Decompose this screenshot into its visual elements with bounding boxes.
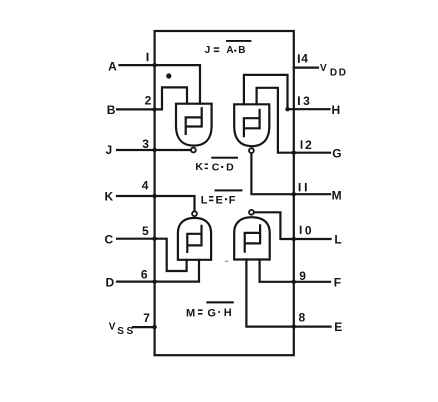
U1d output bubble — [249, 210, 254, 215]
svg-text:A: A — [108, 60, 117, 74]
svg-text:2: 2 — [305, 138, 312, 152]
svg-text:0: 0 — [305, 224, 312, 238]
wire pin 3 (gate U1a output J) — [117, 149, 190, 151]
svg-text:3: 3 — [142, 137, 149, 151]
svg-text:9: 9 — [299, 269, 306, 283]
pin number 10 — [300, 226, 302, 234]
junction pin11/edge — [292, 192, 296, 196]
junction pin2/edge — [152, 107, 156, 111]
svg-text:K: K — [195, 161, 203, 173]
NAND gate U1c body (points up) — [178, 218, 211, 260]
pin number 11 — [299, 183, 301, 191]
wire pin 5 (input C to gate U1c) — [117, 239, 187, 271]
svg-text:E: E — [216, 195, 223, 207]
wire pin 6 (input D to gate U1c) — [117, 260, 199, 282]
junction pin7/edge — [152, 325, 156, 329]
U1b output bubble — [249, 148, 254, 153]
svg-text:F: F — [229, 194, 236, 206]
IC package outline — [155, 31, 294, 355]
svg-text:D: D — [106, 276, 115, 290]
junction pin9/edge — [292, 280, 296, 284]
U1c hysteresis symbol — [187, 226, 201, 252]
svg-text:A: A — [226, 45, 233, 56]
pin number 14 — [298, 54, 300, 63]
svg-text:8: 8 — [299, 310, 306, 324]
svg-text:B: B — [238, 45, 245, 56]
svg-text:B: B — [107, 103, 116, 117]
svg-text:L: L — [201, 194, 208, 206]
equation K = C·D — [195, 161, 234, 173]
NAND gate U1b body (points down) — [234, 104, 269, 146]
wire pin 9 (input F to gate U1d) — [260, 260, 330, 282]
svg-text:D: D — [226, 161, 234, 173]
svg-text:DD: DD — [330, 67, 348, 78]
overline for G·H — [206, 301, 234, 303]
U1a output bubble — [191, 148, 196, 153]
svg-text:M: M — [186, 308, 195, 320]
junction pin8/edge — [292, 324, 296, 328]
wire pin 12 (input G to gate U1b) — [257, 88, 330, 153]
stray scan mark — [225, 260, 229, 262]
wire pin 2 (input B to gate U1a) — [117, 87, 187, 109]
svg-text:4: 4 — [142, 179, 149, 193]
pin number 1 — [147, 53, 149, 61]
svg-text:SS: SS — [117, 326, 135, 337]
U1d hysteresis symbol — [245, 225, 260, 251]
NAND gate U1a body (points down) — [176, 104, 212, 146]
wire pin 1 (input A to gate U1a) — [120, 65, 201, 104]
svg-text:E: E — [334, 320, 342, 334]
svg-text:K: K — [105, 189, 114, 203]
junction pin10/edge — [292, 237, 296, 241]
svg-text:5: 5 — [142, 224, 149, 238]
svg-text:F: F — [334, 276, 341, 290]
wire pin 11 (gate U1b output M) — [251, 154, 330, 195]
svg-text:M: M — [332, 189, 342, 203]
junction pin13 riser — [285, 107, 289, 111]
junction pin5/edge — [152, 237, 156, 241]
svg-text:L: L — [334, 233, 341, 247]
pin number 13 — [298, 96, 300, 105]
svg-text:V: V — [320, 63, 327, 74]
svg-text:6: 6 — [141, 268, 148, 282]
svg-text:2: 2 — [145, 93, 152, 107]
overline for A·B — [226, 40, 251, 42]
svg-text:V: V — [109, 321, 116, 332]
svg-text:G: G — [207, 308, 216, 320]
pin-1 indicator dot — [166, 73, 171, 78]
equation L = E·F — [201, 194, 236, 206]
junction pin6/edge — [152, 279, 156, 283]
junction pin1/edge — [152, 63, 156, 67]
overline for C·D — [211, 157, 238, 159]
junction pin12/edge — [292, 151, 296, 155]
pin number 12 — [301, 140, 303, 148]
U1b hysteresis symbol — [244, 110, 260, 136]
equation M = G·H — [186, 307, 232, 319]
junction pin4/edge — [152, 194, 156, 198]
svg-text:4: 4 — [301, 51, 308, 65]
svg-text:3: 3 — [303, 94, 310, 108]
U1a hysteresis symbol — [186, 108, 202, 134]
NAND gate U1d body (points up) — [234, 217, 270, 259]
svg-text:J: J — [205, 45, 211, 56]
svg-text:G: G — [332, 147, 341, 161]
wire pin 8 (input E to gate U1d) — [246, 260, 330, 327]
wire pin 4 (gate U1c output K) — [117, 196, 195, 211]
junction pin3/edge — [152, 148, 156, 152]
svg-text:J: J — [106, 143, 113, 157]
svg-text:H: H — [332, 103, 341, 117]
svg-text:7: 7 — [143, 311, 150, 325]
overline for E·F — [215, 189, 243, 191]
svg-text:C: C — [105, 232, 114, 246]
equation J = A·B — [205, 45, 246, 56]
U1c output bubble — [192, 211, 197, 216]
wire pin 7 (VSS) — [133, 326, 155, 328]
wire pin 13 (input H to gate U1b) — [244, 75, 330, 109]
wire pin 10 (gate U1d output L) — [255, 212, 331, 239]
svg-text:C: C — [212, 161, 220, 173]
svg-text:H: H — [224, 307, 232, 319]
wire pin 14 (VDD) — [294, 66, 318, 68]
